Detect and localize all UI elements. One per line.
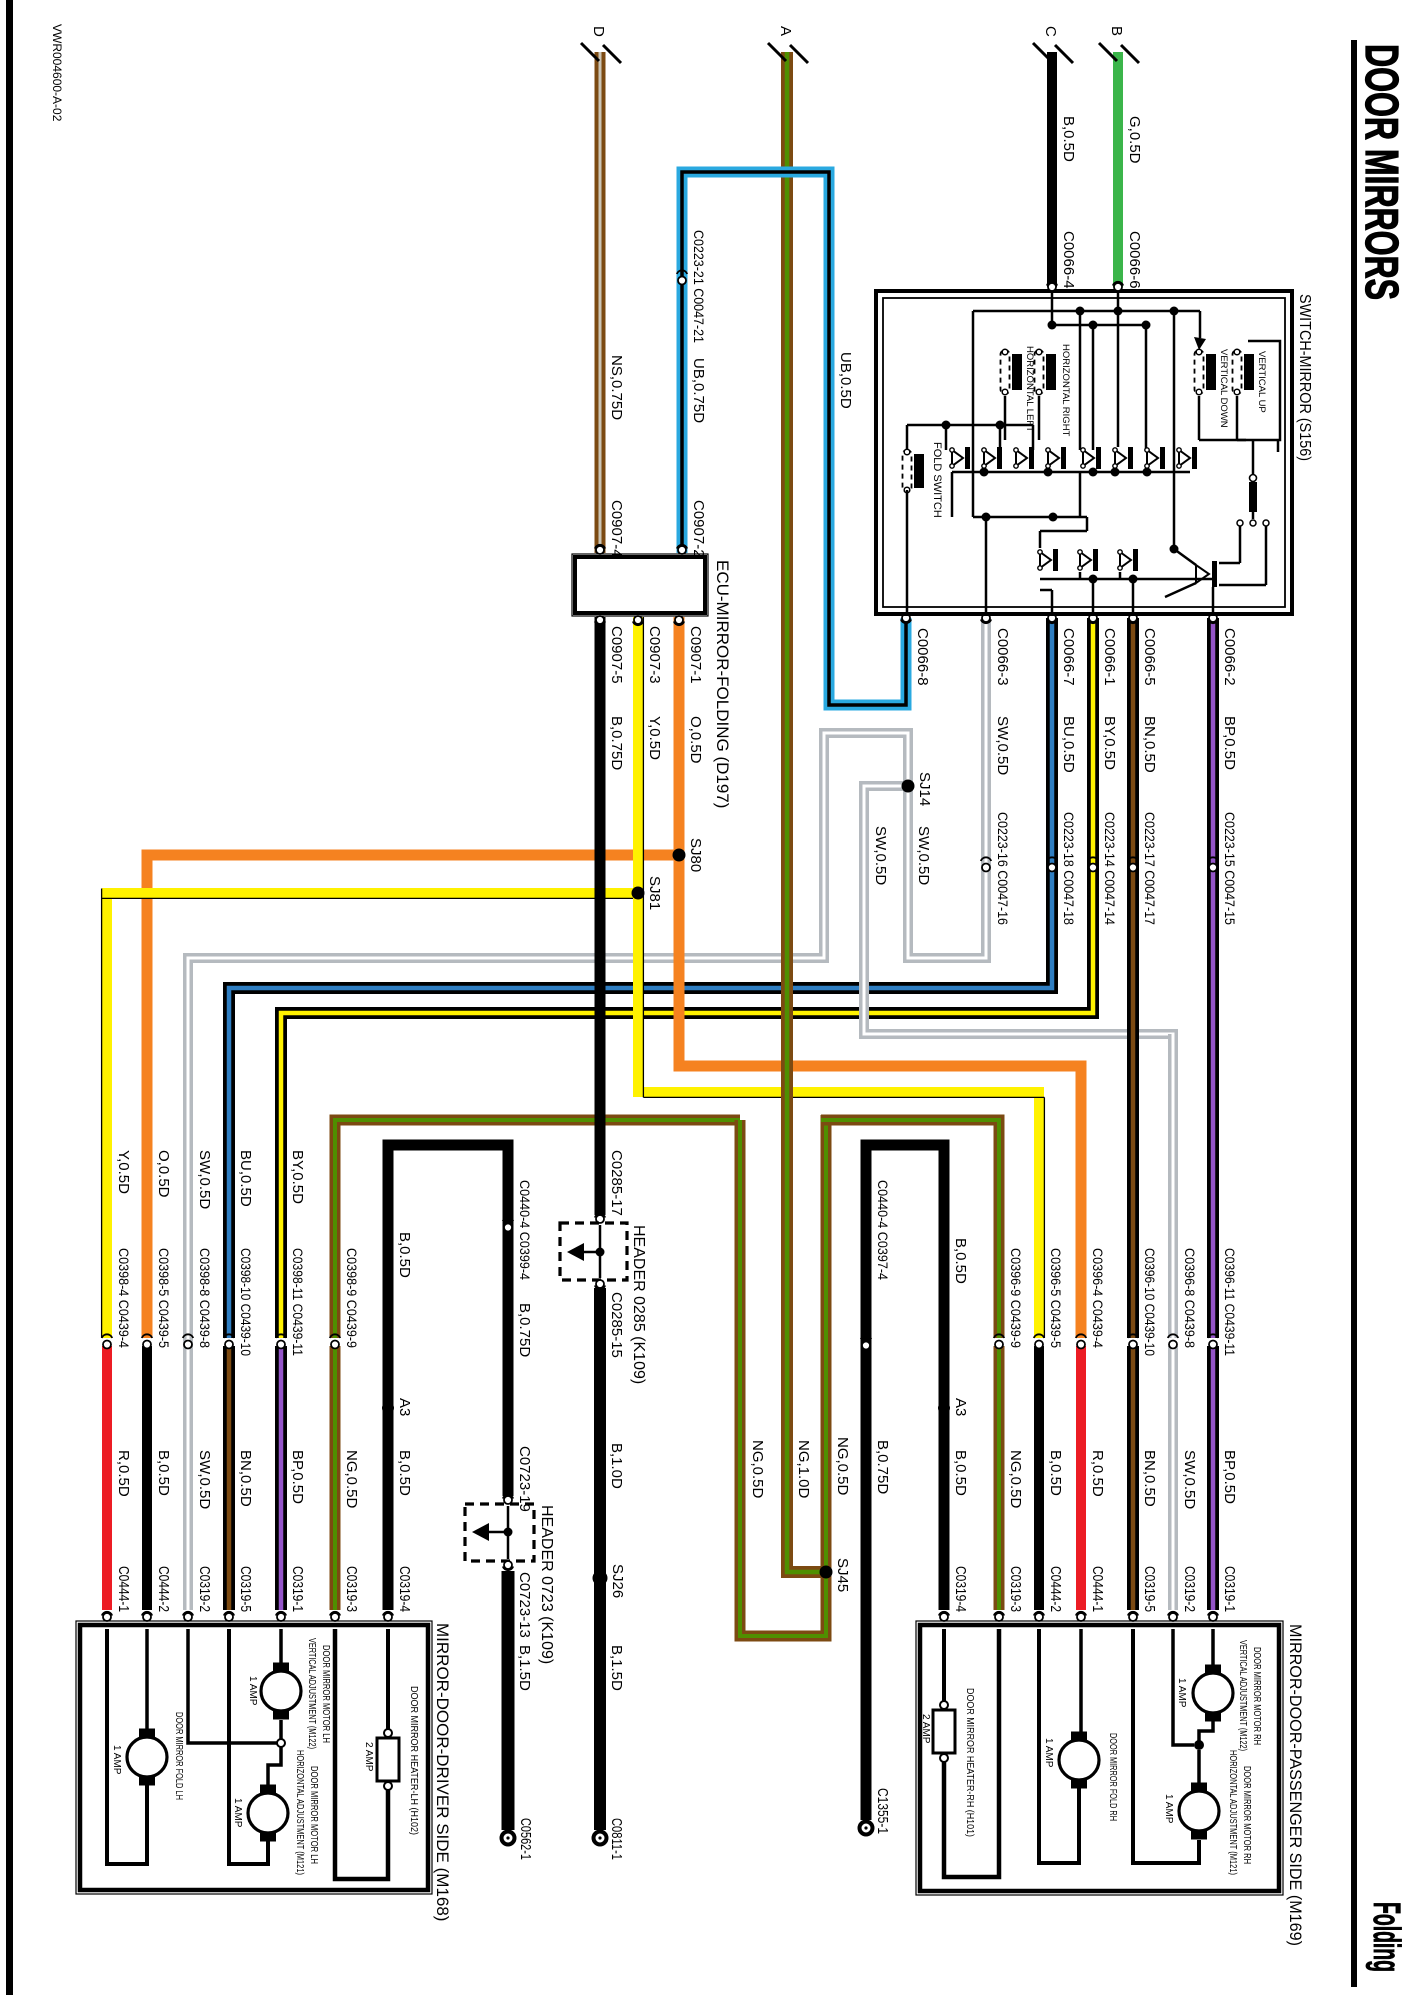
- splice SJ80: [673, 849, 686, 862]
- svg-text:C0907-4: C0907-4: [608, 500, 625, 558]
- connector C0396-8 C0439-8: [1169, 1341, 1177, 1349]
- motor DOOR MIRROR FOLD LH (1 AMP): [127, 1737, 167, 1777]
- svg-text:B,1.5D: B,1.5D: [608, 1645, 625, 1691]
- svg-text:VWR004600-A-02: VWR004600-A-02: [50, 24, 64, 122]
- switch HORIZONTAL RIGHT: [1035, 350, 1044, 394]
- svg-text:C: C: [1042, 26, 1059, 37]
- wire yellow Y,0.5D horizontal SJ81 run: [107, 893, 638, 1338]
- svg-text:C0319-5: C0319-5: [1141, 1566, 1158, 1612]
- svg-text:SJ26: SJ26: [609, 1564, 626, 1598]
- svg-text:HORIZONTAL ADJUSTMENT (M121): HORIZONTAL ADJUSTMENT (M121): [1227, 1750, 1238, 1875]
- svg-text:1 AMP: 1 AMP: [1176, 1678, 1187, 1708]
- svg-text:C0285-17: C0285-17: [608, 1150, 625, 1216]
- svg-text:DOOR MIRROR HEATER-RH (H101): DOOR MIRROR HEATER-RH (H101): [964, 1688, 975, 1837]
- svg-text:C0066-8: C0066-8: [914, 628, 931, 686]
- label C0440-4 C0399-4: [504, 1224, 512, 1232]
- wire BN,0.5D driver vertical: [223, 1346, 235, 1610]
- svg-text:A3: A3: [952, 1398, 969, 1416]
- svg-text:DOOR MIRROR MOTOR LH: DOOR MIRROR MOTOR LH: [308, 1766, 319, 1864]
- svg-text:SW,0.5D: SW,0.5D: [872, 826, 889, 885]
- svg-text:B: B: [1108, 26, 1125, 36]
- pin top C0066-4: [1048, 283, 1056, 291]
- svg-text:FOLD SWITCH: FOLD SWITCH: [931, 442, 943, 518]
- svg-text:C0223-21 C0047-21: C0223-21 C0047-21: [691, 230, 707, 343]
- svg-text:NS,0.75D: NS,0.75D: [608, 355, 625, 420]
- svg-text:HORIZONTAL LEFT: HORIZONTAL LEFT: [1024, 346, 1035, 432]
- splice SJ45: [820, 1566, 833, 1579]
- svg-text:B,0.75D: B,0.75D: [874, 1440, 891, 1494]
- svg-text:DOOR MIRROR FOLD RH: DOOR MIRROR FOLD RH: [1107, 1733, 1118, 1821]
- svg-text:C0223-14 C0047-14: C0223-14 C0047-14: [1102, 812, 1118, 925]
- svg-text:Folding: Folding: [1365, 1902, 1407, 1972]
- splice SJ81: [632, 887, 645, 900]
- svg-text:1 AMP: 1 AMP: [232, 1798, 243, 1828]
- splice SJ26: [594, 1572, 607, 1585]
- svg-text:C0907-2: C0907-2: [690, 500, 707, 558]
- wire B,0.5D driver fold feed: [142, 1346, 152, 1610]
- title rule: [1351, 40, 1357, 1987]
- eyelet C0562-1: [502, 1832, 515, 1845]
- svg-text:SW,0.5D: SW,0.5D: [994, 716, 1011, 775]
- svg-text:1 AMP: 1 AMP: [1043, 1738, 1054, 1768]
- connector C0223-14 C0047-14: [1089, 864, 1097, 872]
- pin C0907-1: [675, 616, 683, 624]
- pin C0066-8: [902, 614, 910, 622]
- wire NS,0.75D brown from connector D to ECU: [595, 52, 606, 553]
- svg-text:SW,0.5D: SW,0.5D: [196, 1450, 213, 1509]
- svg-text:BY,0.5D: BY,0.5D: [1101, 716, 1118, 770]
- node junction passenger motors: [1194, 1740, 1204, 1750]
- wire orange O,0.5D horizontal SJ80 run: [147, 855, 679, 1338]
- connector C0223-16 C0047-16: [982, 864, 990, 872]
- connector C0396-9 C0439-9: [995, 1341, 1003, 1349]
- pin top C0066-6: [1114, 283, 1122, 291]
- connector C0396-11 C0439-11: [1209, 1341, 1217, 1349]
- pin C0907-4: [596, 546, 604, 554]
- lower contact row: [1040, 552, 1051, 568]
- svg-text:B,1.0D: B,1.0D: [608, 1443, 625, 1489]
- svg-text:C0398-8 C0439-8: C0398-8 C0439-8: [197, 1248, 213, 1348]
- wire NG,1.0D from connector A to splice SJ45: [787, 52, 822, 1572]
- svg-text:B,0.5D: B,0.5D: [1060, 116, 1077, 162]
- svg-text:C0440-4 C0399-4: C0440-4 C0399-4: [517, 1180, 533, 1280]
- svg-text:C0223-17 C0047-17: C0223-17 C0047-17: [1142, 812, 1158, 925]
- svg-text:NG,0.5D: NG,0.5D: [1007, 1450, 1024, 1509]
- svg-text:C0440-4 C0397-4: C0440-4 C0397-4: [875, 1180, 891, 1280]
- svg-text:BP,0.5D: BP,0.5D: [1221, 716, 1238, 770]
- svg-text:C0396-5 C0439-5: C0396-5 C0439-5: [1048, 1248, 1064, 1348]
- svg-text:C0319-2: C0319-2: [196, 1566, 213, 1612]
- svg-text:1 AMP: 1 AMP: [1163, 1794, 1174, 1824]
- connector C0398-8 C0439-8: [184, 1341, 192, 1349]
- pin C0066-7: [1048, 614, 1056, 622]
- wire NG,0.5D driver vertical: [330, 1346, 341, 1610]
- upper contact row: [952, 450, 963, 466]
- svg-text:VERTICAL DOWN: VERTICAL DOWN: [1218, 349, 1229, 428]
- svg-text:C0319-1: C0319-1: [1221, 1566, 1238, 1612]
- svg-text:C0396-4 C0439-4: C0396-4 C0439-4: [1090, 1248, 1106, 1348]
- svg-text:C0066-4: C0066-4: [1060, 231, 1077, 289]
- svg-text:DOOR MIRROR MOTOR RH: DOOR MIRROR MOTOR RH: [1251, 1647, 1262, 1745]
- svg-text:C0223-15 C0047-15: C0223-15 C0047-15: [1222, 812, 1238, 925]
- svg-text:C0723-19: C0723-19: [516, 1446, 533, 1512]
- wire SW,0.5D passenger vertical: [1168, 1034, 1178, 1338]
- svg-text:C0396-9 C0439-9: C0396-9 C0439-9: [1008, 1248, 1024, 1348]
- svg-text:HORIZONTAL RIGHT: HORIZONTAL RIGHT: [1060, 344, 1071, 437]
- svg-text:BP,0.5D: BP,0.5D: [289, 1450, 306, 1504]
- HEADER 0723 (K109): [504, 1496, 512, 1504]
- connector C0398-11 C0439-11: [277, 1341, 285, 1349]
- svg-text:C0398-11 C0439-11: C0398-11 C0439-11: [290, 1248, 306, 1356]
- svg-text:C0562-1: C0562-1: [517, 1818, 534, 1860]
- svg-text:NG,1.0D: NG,1.0D: [795, 1440, 812, 1499]
- svg-text:Y,0.5D: Y,0.5D: [646, 716, 663, 760]
- pin C0907-3: [634, 616, 642, 624]
- svg-text:C0285-15: C0285-15: [608, 1292, 625, 1358]
- svg-text:C0319-2: C0319-2: [1181, 1566, 1198, 1612]
- wire yellow Y,0.5D ECU to passenger: [638, 617, 1039, 1338]
- svg-text:C0396-10 C0439-10: C0396-10 C0439-10: [1142, 1248, 1158, 1356]
- svg-text:C0066-7: C0066-7: [1060, 628, 1077, 686]
- svg-text:HORIZONTAL ADJUSTMENT (M121): HORIZONTAL ADJUSTMENT (M121): [294, 1750, 305, 1875]
- wire B,0.75D passenger heater loop to eyelet C1355-1: [866, 1145, 944, 1820]
- wire SW,0.5D gray SJ14 to passenger: [864, 786, 1173, 1338]
- node junction driver motors: [277, 1739, 285, 1747]
- svg-text:O,0.5D: O,0.5D: [155, 1150, 172, 1198]
- svg-text:MIRROR-DOOR-DRIVER SIDE (M168): MIRROR-DOOR-DRIVER SIDE (M168): [433, 1623, 452, 1921]
- svg-text:C0811-1: C0811-1: [608, 1818, 625, 1860]
- connector C0223-18 C0047-18: [1048, 864, 1056, 872]
- svg-text:O,0.5D: O,0.5D: [687, 716, 704, 764]
- svg-text:B,0.5D: B,0.5D: [1047, 1450, 1064, 1496]
- wire BP,0.5D switch to passenger: [1207, 618, 1219, 1338]
- svg-text:R,0.5D: R,0.5D: [115, 1450, 132, 1497]
- svg-text:1 AMP: 1 AMP: [111, 1745, 122, 1775]
- splice A3 driver: [382, 1402, 394, 1414]
- splice A3 passenger: [938, 1402, 950, 1414]
- svg-text:B,0.75D: B,0.75D: [516, 1303, 533, 1357]
- svg-text:DOOR MIRROR MOTOR LH: DOOR MIRROR MOTOR LH: [320, 1645, 331, 1743]
- switch HORIZONTAL LEFT: [1001, 350, 1010, 394]
- svg-text:NG,0.5D: NG,0.5D: [749, 1440, 766, 1499]
- wire SW,0.5D gray driver run: [188, 618, 986, 1610]
- fold switch: [903, 450, 912, 492]
- connector C0396-5 C0439-5: [1035, 1341, 1043, 1349]
- MIRROR-DOOR-PASSENGER SIDE (M169): [920, 1625, 1279, 1891]
- svg-text:C0066-1: C0066-1: [1101, 628, 1118, 686]
- svg-text:MIRROR-DOOR-PASSENGER SIDE (M1: MIRROR-DOOR-PASSENGER SIDE (M169): [1286, 1624, 1305, 1946]
- heater DOOR MIRROR HEATER-RH (H101) 2 AMP: [933, 1710, 955, 1753]
- eyelet C1355-1: [860, 1822, 873, 1835]
- svg-text:C0396-8 C0439-8: C0396-8 C0439-8: [1182, 1248, 1198, 1348]
- svg-text:C0066-6: C0066-6: [1126, 231, 1143, 289]
- switch internal wiring: [1051, 293, 1054, 325]
- svg-text:2 AMP: 2 AMP: [363, 1742, 374, 1772]
- svg-text:DOOR MIRROR MOTOR RH: DOOR MIRROR MOTOR RH: [1241, 1766, 1252, 1864]
- connector C0396-4 C0439-4: [1077, 1341, 1085, 1349]
- svg-text:G,0.5D: G,0.5D: [1126, 116, 1143, 164]
- wire B,1.5D to eyelet C0562-1: [502, 1571, 515, 1830]
- svg-text:C0319-3: C0319-3: [343, 1566, 360, 1612]
- svg-text:B,0.5D: B,0.5D: [396, 1450, 413, 1496]
- SWITCH-MIRROR (S156): [876, 291, 1292, 614]
- svg-text:C0444-2: C0444-2: [1047, 1566, 1064, 1612]
- svg-text:A: A: [777, 26, 794, 36]
- svg-text:DOOR MIRROR HEATER-LH (H102): DOOR MIRROR HEATER-LH (H102): [408, 1686, 419, 1835]
- svg-text:A3: A3: [396, 1398, 413, 1416]
- svg-text:SW,0.5D: SW,0.5D: [915, 826, 932, 885]
- svg-text:C0398-5 C0439-5: C0398-5 C0439-5: [156, 1248, 172, 1348]
- motor DOOR MIRROR MOTOR RH VERTICAL ADJUSTMENT (M122): [1193, 1673, 1233, 1713]
- wire NG,0.5D to passenger: [821, 1120, 999, 1338]
- svg-text:C0319-4: C0319-4: [396, 1566, 413, 1612]
- svg-text:ECU-MIRROR-FOLDING (D197): ECU-MIRROR-FOLDING (D197): [713, 560, 732, 808]
- motor DOOR MIRROR MOTOR LH HORIZONTAL ADJUSTMENT (M121): [248, 1793, 288, 1833]
- svg-text:B,0.5D: B,0.5D: [952, 1450, 969, 1496]
- svg-text:BN,0.5D: BN,0.5D: [1141, 716, 1158, 773]
- svg-text:SJ45: SJ45: [834, 1558, 851, 1592]
- svg-text:B,0.5D: B,0.5D: [952, 1238, 969, 1284]
- svg-text:C0907-1: C0907-1: [687, 626, 704, 684]
- connector C0398-4 C0439-4: [103, 1341, 111, 1349]
- svg-text:C0223-18 C0047-18: C0223-18 C0047-18: [1061, 812, 1077, 925]
- wire B,1.0D / B,1.5D header 0285 to eyelet C0811-1: [594, 1288, 606, 1830]
- wire NG,0.5D loop driver-to-SJ45: [740, 1115, 826, 1636]
- pin C0066-3: [982, 614, 990, 622]
- connector C0398-5 C0439-5: [143, 1341, 151, 1349]
- svg-text:C0444-1: C0444-1: [1089, 1566, 1106, 1612]
- svg-text:SW,0.5D: SW,0.5D: [1181, 1450, 1198, 1509]
- svg-text:C0319-5: C0319-5: [237, 1566, 254, 1612]
- wire BY,0.5D switch to driver: [281, 618, 1093, 1338]
- svg-text:SJ81: SJ81: [646, 876, 663, 910]
- resistor in switch: [1250, 475, 1257, 482]
- ECU-MIRROR-FOLDING (D197): [575, 557, 705, 613]
- svg-text:C0396-11 C0439-11: C0396-11 C0439-11: [1222, 1248, 1238, 1356]
- svg-text:C0723-13: C0723-13: [516, 1572, 533, 1638]
- svg-text:SJ80: SJ80: [687, 838, 704, 872]
- eyelet C0811-1: [594, 1832, 607, 1845]
- svg-text:BP,0.5D: BP,0.5D: [1221, 1450, 1238, 1504]
- wire BU,0.5D switch to driver: [229, 618, 1052, 1338]
- pin C0066-2: [1209, 614, 1217, 622]
- svg-text:C0907-5: C0907-5: [608, 626, 625, 684]
- svg-text:C0223-16 C0047-16: C0223-16 C0047-16: [995, 812, 1011, 925]
- svg-text:C1355-1: C1355-1: [874, 1788, 891, 1834]
- connector C0398-9 C0439-9: [331, 1341, 339, 1349]
- connector C0223-17 C0047-17: [1129, 864, 1137, 872]
- svg-text:UB,0.75D: UB,0.75D: [690, 358, 707, 423]
- svg-text:DOOR MIRRORS: DOOR MIRRORS: [1356, 44, 1408, 300]
- svg-text:VERTICAL ADJUSTMENT (M122): VERTICAL ADJUSTMENT (M122): [306, 1638, 317, 1749]
- svg-text:NG,0.5D: NG,0.5D: [343, 1450, 360, 1509]
- heater DOOR MIRROR HEATER-LH (H102) 2 AMP: [377, 1738, 399, 1781]
- svg-text:C0319-3: C0319-3: [1007, 1566, 1024, 1612]
- svg-text:2 AMP: 2 AMP: [920, 1714, 931, 1744]
- motor DOOR MIRROR MOTOR RH HORIZONTAL ADJUSTMENT (M121): [1179, 1791, 1219, 1831]
- left margin bar: [6, 0, 13, 1995]
- svg-text:C0398-9 C0439-9: C0398-9 C0439-9: [344, 1248, 360, 1348]
- svg-text:B,0.5D: B,0.5D: [396, 1232, 413, 1278]
- pin C0066-5: [1129, 614, 1137, 622]
- svg-text:C0398-4 C0439-4: C0398-4 C0439-4: [116, 1248, 132, 1348]
- wire BP,0.5D driver vertical: [275, 1346, 287, 1610]
- motor DOOR MIRROR MOTOR LH VERTICAL ADJUSTMENT (M122): [261, 1671, 301, 1711]
- svg-text:B,0.5D: B,0.5D: [155, 1450, 172, 1496]
- HEADER 0285 (K109): [596, 1215, 604, 1223]
- svg-text:SJ14: SJ14: [916, 772, 933, 806]
- connector C0398-10 C0439-10: [225, 1341, 233, 1349]
- svg-text:BU,0.5D: BU,0.5D: [237, 1150, 254, 1207]
- wire B,0.5D passenger fold feed: [1034, 1346, 1044, 1610]
- svg-text:C0319-1: C0319-1: [289, 1566, 306, 1612]
- svg-text:B,0.75D: B,0.75D: [608, 716, 625, 770]
- pin C0066-1: [1089, 614, 1097, 622]
- svg-text:C0907-3: C0907-3: [646, 626, 663, 684]
- svg-text:VERTICAL ADJUSTMENT (M122): VERTICAL ADJUSTMENT (M122): [1237, 1640, 1248, 1751]
- svg-text:Y,0.5D: Y,0.5D: [115, 1150, 132, 1194]
- svg-text:BN,0.5D: BN,0.5D: [237, 1450, 254, 1507]
- wire BN,0.5D switch to passenger: [1127, 618, 1139, 1338]
- svg-text:NG,0.5D: NG,0.5D: [834, 1437, 851, 1496]
- svg-text:C0444-1: C0444-1: [115, 1566, 132, 1612]
- svg-text:SWITCH-MIRROR (S156): SWITCH-MIRROR (S156): [1296, 294, 1313, 461]
- connector C0223-15 C0047-15: [1209, 864, 1217, 872]
- svg-text:VERTICAL UP: VERTICAL UP: [1256, 351, 1267, 413]
- svg-text:HEADER 0285 (K109): HEADER 0285 (K109): [630, 1225, 647, 1384]
- svg-text:C0066-2: C0066-2: [1221, 628, 1238, 686]
- svg-text:SW,0.5D: SW,0.5D: [196, 1150, 213, 1209]
- motor DOOR MIRROR FOLD RH (1 AMP): [1059, 1740, 1099, 1780]
- svg-text:UB,0.5D: UB,0.5D: [837, 352, 854, 409]
- svg-text:1 AMP: 1 AMP: [247, 1676, 258, 1706]
- connector C0223-21 C0047-21: [678, 277, 686, 285]
- svg-text:BY,0.5D: BY,0.5D: [289, 1150, 306, 1204]
- pin C0907-5: [596, 616, 604, 624]
- wire UB,0.75D / UB,0.5D blue ECU to switch: [682, 172, 906, 705]
- svg-text:C0398-10 C0439-10: C0398-10 C0439-10: [238, 1248, 254, 1356]
- wire B,0.5D driver heater loop: [388, 1145, 508, 1610]
- wire B,0.75D ECU ground leg to header 0285: [595, 617, 606, 1215]
- svg-text:HEADER 0723 (K109): HEADER 0723 (K109): [538, 1505, 555, 1664]
- wire R,0.5D driver fold feed: [102, 1346, 112, 1610]
- wire B,0.5D from connector C to switch: [1047, 52, 1057, 287]
- svg-text:C0444-2: C0444-2: [155, 1566, 172, 1612]
- svg-text:C0319-4: C0319-4: [952, 1566, 969, 1612]
- svg-text:C0066-3: C0066-3: [994, 628, 1011, 686]
- svg-text:C0066-5: C0066-5: [1141, 628, 1158, 686]
- switch VERTICAL UP: [1233, 350, 1242, 394]
- wire orange O,0.5D ECU to passenger: [679, 617, 1081, 1338]
- splice SJ14: [902, 780, 915, 793]
- connector C0440-4 C0397-4: [862, 1342, 870, 1350]
- svg-text:D: D: [590, 26, 607, 37]
- connector C0396-10 C0439-10: [1129, 1341, 1137, 1349]
- wire R,0.5D passenger fold feed: [1076, 1346, 1086, 1610]
- wire NG,0.5D horizontal left run: [335, 1120, 740, 1338]
- svg-text:BN,0.5D: BN,0.5D: [1141, 1450, 1158, 1507]
- svg-text:BU,0.5D: BU,0.5D: [1060, 716, 1077, 773]
- svg-text:B,1.5D: B,1.5D: [516, 1645, 533, 1691]
- wire G,0.5D green from connector B to switch: [1113, 52, 1123, 287]
- MIRROR-DOOR-DRIVER SIDE (M168): [80, 1625, 428, 1890]
- svg-text:R,0.5D: R,0.5D: [1089, 1450, 1106, 1497]
- svg-text:DOOR MIRROR FOLD LH: DOOR MIRROR FOLD LH: [173, 1712, 184, 1800]
- switch VERTICAL DOWN: [1195, 350, 1204, 394]
- pin C0907-2: [678, 546, 686, 554]
